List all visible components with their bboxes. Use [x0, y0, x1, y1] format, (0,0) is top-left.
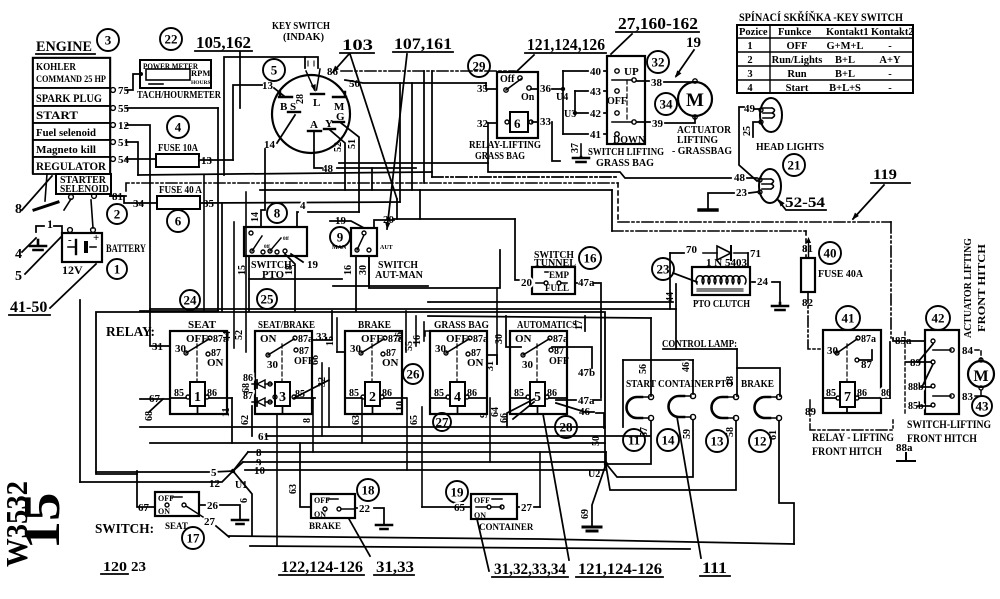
callout 9 [330, 227, 350, 247]
relay K5 AUTOMATICS coil bottom stub [537, 406, 539, 414]
wire dash-dot bus y182 [126, 183, 618, 191]
svg-text:12: 12 [754, 434, 767, 449]
svg-text:2: 2 [369, 390, 376, 405]
relay K2 BRAKE coil box 2 [365, 382, 380, 406]
svg-text:4: 4 [300, 200, 306, 212]
wire S2 dashdot [808, 292, 834, 349]
wire 57 [608, 421, 651, 464]
svg-text:121,124,126: 121,124,126 [527, 35, 605, 54]
svg-text:3: 3 [747, 69, 752, 80]
relay K3 SEAT/BRAKE dashed link [281, 344, 283, 382]
svg-text:86: 86 [243, 373, 253, 384]
svg-text:25: 25 [742, 126, 753, 136]
svg-text:U2: U2 [588, 469, 600, 480]
svg-text:42: 42 [590, 108, 602, 120]
svg-text:-: - [888, 83, 892, 94]
wire U1 fan 8 [233, 452, 248, 471]
wire bus y302 [428, 301, 673, 303]
svg-text:G+M+L: G+M+L [826, 41, 863, 52]
wire 66 vert [321, 363, 323, 436]
relay K4 GRASS BAG coil left wire [430, 397, 446, 399]
wire ladder v400 [399, 83, 401, 202]
wire 18 lamp [736, 349, 738, 396]
wire 20 bus [394, 218, 515, 220]
wire 50 bus [345, 80, 486, 83]
svg-text:Run/Lights: Run/Lights [772, 55, 823, 66]
svg-text:Funkce: Funkce [778, 27, 812, 38]
relay section outline [96, 312, 605, 474]
svg-text:SEAT/BRAKE: SEAT/BRAKE [258, 319, 315, 331]
svg-text:81: 81 [112, 191, 123, 203]
callout 23 [652, 258, 674, 280]
wire K7 coil left [823, 397, 836, 399]
terminal Y [324, 128, 335, 130]
wire 16 down [355, 256, 357, 311]
svg-text:7: 7 [844, 390, 851, 405]
wire 10 vert gb [406, 398, 408, 470]
wire 12 left [80, 473, 231, 482]
svg-text:FUSE 40A: FUSE 40A [818, 268, 863, 280]
wire bus y470 [245, 469, 605, 471]
svg-text:28: 28 [295, 94, 306, 104]
svg-text:47a: 47a [578, 277, 595, 289]
starter selenoid terminals [69, 195, 74, 200]
svg-text:31,33: 31,33 [376, 559, 414, 576]
wire ladder v432 [431, 71, 433, 177]
wire 47b [552, 347, 592, 368]
wire 59 [608, 420, 693, 477]
wire 86 up [889, 342, 891, 398]
callout 27 [433, 413, 451, 431]
wire 44 [675, 284, 677, 309]
fuse F2 40A [157, 196, 200, 209]
svg-text:ON: ON [260, 333, 277, 345]
underline 31,32,33,34 [492, 576, 568, 578]
relay K5 AUTOMATICS coil box 5 [530, 382, 545, 406]
svg-text:-: - [888, 41, 892, 52]
relay K5 AUTOMATICS box [510, 331, 567, 414]
ground 22 [376, 525, 392, 529]
svg-text:39: 39 [652, 118, 664, 130]
wire sb 85 diag [294, 380, 329, 398]
svg-text:34: 34 [133, 198, 145, 210]
wire 39 [637, 121, 650, 123]
actuator motor M front hitch [968, 361, 994, 387]
svg-text:START: START [626, 379, 656, 390]
wire 38 to motor [664, 81, 693, 83]
svg-text:16: 16 [343, 265, 354, 275]
callout 32 [647, 51, 669, 73]
svg-text:Kontakt2: Kontakt2 [871, 27, 914, 38]
relay lifting grass bag box [497, 72, 538, 138]
wire 31 vert gb [496, 288, 498, 364]
wire S to 14 [277, 115, 295, 143]
svg-text:Run: Run [787, 69, 806, 80]
wire U3 vertical [574, 91, 576, 113]
svg-text:40: 40 [824, 246, 837, 261]
wire 30 auto [506, 316, 521, 347]
svg-text:19: 19 [686, 35, 701, 51]
wire 62 long [276, 414, 278, 545]
svg-text:30: 30 [267, 359, 279, 371]
svg-text:OFF: OFF [787, 41, 808, 52]
wire 89 switch [906, 361, 931, 363]
wire battery down [79, 300, 81, 482]
svg-text:BRAKE: BRAKE [358, 319, 391, 331]
svg-text:8: 8 [274, 206, 281, 221]
relay K4 GRASS BAG box [430, 331, 487, 414]
wire pto 4 hook [308, 211, 359, 213]
wire 47a [575, 282, 577, 284]
svg-text:COMMAND 25 HP: COMMAND 25 HP [36, 74, 106, 84]
underline 105,162 [195, 50, 252, 52]
key switch circle [272, 75, 350, 153]
svg-text:49: 49 [744, 103, 756, 115]
relay K1 SEAT dashed link [196, 344, 198, 382]
svg-text:87a: 87a [473, 334, 488, 345]
container switch box [471, 494, 517, 519]
wire 65 switch [422, 506, 471, 508]
wire 35 from fuse40 [200, 202, 400, 203]
wire 64 diag [507, 399, 534, 427]
svg-text:AUT-MAN: AUT-MAN [375, 270, 423, 281]
relay K2 BRAKE coil bottom stub [372, 406, 374, 414]
svg-text:16: 16 [584, 251, 598, 266]
svg-text:36: 36 [540, 83, 552, 95]
wire 103 pointer [333, 54, 349, 72]
relay K4 GRASS BAG coil box 4 [450, 382, 465, 406]
svg-text:GRASS BAG: GRASS BAG [475, 151, 525, 162]
wire 88b diag [922, 364, 933, 387]
wire 85a [893, 338, 925, 341]
table grid [737, 25, 913, 93]
wire bus y279 [249, 278, 342, 280]
svg-text:OFF: OFF [549, 356, 569, 367]
svg-text:A+Y: A+Y [879, 55, 901, 66]
svg-text:ENGINE: ENGINE [36, 39, 92, 55]
svg-text:B+L: B+L [835, 55, 855, 66]
svg-text:Off: Off [500, 74, 515, 85]
relay K7 dashed [846, 344, 848, 382]
control lamp underline wire [663, 348, 737, 350]
svg-text:18: 18 [362, 483, 376, 498]
callout 19 [446, 481, 468, 503]
wire 42 [575, 112, 588, 114]
svg-text:62: 62 [240, 415, 251, 425]
wire 107,161 pointer [387, 54, 407, 229]
svg-text:5: 5 [271, 63, 278, 78]
svg-text:87a: 87a [298, 334, 313, 345]
svg-text:START: START [36, 110, 78, 122]
wire 86 dash-dot [341, 70, 515, 72]
svg-text:Y: Y [325, 118, 333, 130]
switch lifting dashed [626, 80, 628, 121]
wire 46 diag [556, 403, 594, 412]
svg-text:70: 70 [686, 244, 698, 256]
callout 21 [783, 154, 805, 176]
svg-text:40: 40 [590, 66, 602, 78]
svg-text:OFF: OFF [361, 333, 383, 345]
wire 55 vertical [217, 108, 219, 311]
relay K2 BRAKE dashed link [371, 344, 373, 382]
wire tach bus [224, 57, 305, 175]
wire 38 [637, 80, 649, 82]
svg-text:4: 4 [175, 120, 182, 135]
wire U1 fan 5 [213, 471, 233, 472]
svg-text:23: 23 [657, 262, 671, 277]
switch PTO box [244, 227, 307, 256]
svg-text:Start: Start [786, 83, 809, 94]
svg-text:52: 52 [234, 330, 245, 340]
wire y190 drop 420 [419, 190, 421, 219]
svg-text:4: 4 [747, 83, 753, 94]
svg-text:U4: U4 [556, 92, 568, 103]
svg-text:FRONT HITCH: FRONT HITCH [907, 433, 977, 445]
wire dashdot y177 [432, 176, 616, 178]
svg-text:HOURS: HOURS [191, 80, 211, 86]
svg-text:4: 4 [454, 390, 461, 405]
wire 63 switch [300, 443, 311, 507]
svg-text:2: 2 [114, 207, 121, 222]
svg-text:13: 13 [262, 80, 274, 92]
callout 12 [749, 430, 771, 452]
relay K2 BRAKE contact [361, 339, 384, 353]
relay K2 BRAKE coil right wire [384, 397, 402, 399]
relay K3 SEAT/BRAKE coil bottom stub [282, 406, 284, 414]
svg-text:17: 17 [187, 531, 201, 546]
wire bus y316 [428, 316, 651, 318]
svg-text:27,160-162: 27,160-162 [618, 14, 698, 33]
terminal L [311, 93, 324, 95]
svg-text:87a: 87a [553, 334, 568, 345]
svg-text:69: 69 [580, 509, 591, 519]
svg-text:5: 5 [15, 269, 22, 284]
svg-text:31: 31 [152, 341, 163, 353]
svg-text:111: 111 [702, 560, 727, 577]
callout 26 [403, 364, 423, 384]
terminal 75 [111, 88, 116, 93]
svg-text:FUSE 40 A: FUSE 40 A [159, 185, 202, 196]
wire 65 vert [421, 407, 423, 507]
wire bus y436 [266, 435, 650, 437]
callout 1 [107, 259, 127, 279]
wire 36 to U4 [531, 88, 538, 90]
svg-text:44: 44 [665, 292, 676, 302]
engine row REGULATOR [33, 157, 110, 174]
svg-text:KOHLER: KOHLER [36, 62, 77, 73]
svg-text:OFF: OFF [607, 96, 627, 107]
ground 37 [573, 157, 589, 162]
svg-text:SEAT: SEAT [165, 521, 188, 531]
wire 40 [563, 70, 588, 72]
terminal M [333, 92, 346, 97]
svg-text:66: 66 [499, 413, 510, 423]
relay K3 SEAT/BRAKE contact [268, 339, 294, 355]
wire S3 dash [975, 388, 981, 396]
callout 14 [657, 429, 679, 451]
wire 41-50 pointer [50, 264, 96, 308]
pto clutch coil [696, 276, 746, 284]
wire 4 diagonal [22, 238, 36, 252]
underline 31,33 [374, 574, 414, 576]
ground 23 [699, 208, 717, 211]
switch lifting grass bag box [607, 56, 645, 144]
svg-text:51: 51 [347, 139, 358, 149]
wire 22 [355, 507, 357, 509]
svg-text:12: 12 [118, 120, 130, 132]
switch S42 contact S3 [933, 395, 951, 397]
power meter mark [149, 83, 163, 85]
svg-text:61: 61 [258, 431, 269, 443]
wire bus y309 [150, 308, 676, 310]
svg-text:OFF: OFF [446, 333, 468, 345]
svg-text:65: 65 [409, 415, 420, 425]
svg-text:22: 22 [165, 32, 178, 47]
callout 22 [160, 28, 182, 50]
svg-text:10: 10 [395, 401, 406, 411]
wire 66 diag [513, 402, 534, 419]
wire bus y175 [138, 172, 432, 175]
wire 121 pointer [516, 55, 534, 72]
svg-text:33: 33 [540, 116, 552, 128]
svg-text:MAN: MAN [332, 245, 347, 251]
wire 41 [563, 133, 588, 135]
callout 16 [579, 247, 601, 269]
wire 54 to fuse10 [126, 158, 156, 160]
underline 52-54 [778, 200, 826, 210]
wire 31 seat [150, 311, 170, 346]
wire 27 right [534, 506, 540, 508]
svg-text:ON: ON [515, 333, 532, 345]
svg-text:0ff: 0ff [283, 237, 289, 242]
svg-text:0ff: 0ff [264, 245, 270, 250]
svg-text:63: 63 [288, 484, 299, 494]
svg-text:+: + [93, 232, 99, 244]
svg-text:19: 19 [451, 485, 465, 500]
wire bus y163 [339, 162, 488, 164]
svg-text:54: 54 [118, 154, 130, 166]
svg-text:SWITCH LIFTING: SWITCH LIFTING [588, 147, 664, 158]
seat switch box [155, 492, 199, 516]
svg-text:ACTUATOR LIFTING: ACTUATOR LIFTING [962, 238, 974, 338]
relay K1 SEAT contact [186, 339, 209, 353]
svg-text:FRONT HITCH: FRONT HITCH [976, 244, 988, 332]
svg-text:BRAKE: BRAKE [309, 521, 341, 531]
underline ENGINE [36, 53, 95, 55]
svg-text:107,161: 107,161 [394, 36, 452, 53]
callout 6 [167, 210, 189, 232]
wire 51 vert [341, 123, 359, 212]
relay K4 GRASS BAG coil right wire [469, 397, 487, 399]
svg-text:27: 27 [521, 502, 533, 514]
wire 36b [552, 88, 563, 90]
callout 25 [257, 289, 277, 309]
wire 62 vert [251, 406, 253, 436]
svg-text:67: 67 [138, 502, 150, 514]
callout 5 [263, 59, 285, 81]
engine row START [33, 106, 110, 123]
svg-text:SELENOID: SELENOID [60, 184, 109, 195]
wire 23 lights [708, 193, 734, 209]
wire 111 diagonal [677, 417, 701, 558]
wire 9 vert gb [489, 398, 491, 462]
callout 43 [972, 396, 992, 416]
svg-text:G: G [336, 111, 345, 123]
svg-text:1: 1 [114, 262, 121, 277]
relay K7 coil bottom stub [846, 407, 848, 413]
svg-text:24: 24 [184, 293, 198, 308]
svg-text:83: 83 [962, 391, 974, 403]
wire bottom bus 1 [229, 536, 794, 544]
svg-text:32: 32 [652, 55, 665, 70]
svg-text:12: 12 [209, 478, 221, 490]
svg-text:ON: ON [207, 357, 224, 369]
svg-text:56: 56 [394, 332, 405, 342]
engine block outline [33, 58, 110, 173]
wire diode down [747, 253, 749, 267]
svg-text:30: 30 [494, 334, 505, 344]
svg-text:37: 37 [570, 143, 581, 153]
wire 25 [753, 122, 761, 137]
wire 111 diagonal from relay [543, 414, 569, 560]
svg-text:HEAD LIGHTS: HEAD LIGHTS [756, 142, 824, 153]
relay K1 SEAT coil bottom stub [197, 406, 199, 414]
svg-text:66: 66 [310, 355, 321, 365]
svg-text:30: 30 [175, 343, 187, 355]
svg-text:41: 41 [842, 311, 855, 326]
wire U1 down 6 [233, 471, 252, 536]
callout 17 [182, 527, 204, 549]
wire 61 lamp [779, 421, 794, 544]
svg-text:EMP: EMP [549, 270, 569, 280]
svg-text:GRASS BAG: GRASS BAG [434, 319, 489, 331]
wire 75 to tach [126, 74, 141, 90]
ground 88a [897, 453, 915, 461]
wire 49 bracket [739, 107, 757, 181]
relay K4 GRASS BAG dashed link [456, 344, 458, 382]
svg-text:30: 30 [435, 343, 447, 355]
svg-text:11: 11 [628, 433, 640, 448]
relay K2 BRAKE coil left wire [345, 397, 361, 399]
relay K5 AUTOMATICS coil left wire [510, 397, 526, 399]
wire 70 [670, 252, 684, 254]
wire 14 to pto [261, 190, 265, 227]
svg-text:42: 42 [932, 311, 945, 326]
control lamp riser [675, 309, 677, 349]
wire 50 into relay [486, 83, 497, 89]
svg-text:ON: ON [474, 511, 486, 520]
svg-text:14: 14 [250, 212, 261, 222]
wire 85b [918, 405, 931, 407]
actuator motor M grass bag [678, 82, 712, 116]
svg-text:RELAY:: RELAY: [106, 325, 155, 340]
svg-text:13: 13 [201, 155, 213, 167]
wire 67 switch [137, 471, 155, 507]
wire 88b [920, 386, 931, 388]
wire 24 [752, 281, 755, 283]
wire long diagonal [350, 54, 397, 199]
wire 55 vert gb [415, 316, 417, 346]
engine row KOHLER COMMAND 25 HP [33, 58, 110, 88]
svg-text:6: 6 [514, 116, 521, 131]
svg-text:21: 21 [788, 158, 801, 173]
svg-text:30: 30 [350, 343, 362, 355]
key switch top bracket [305, 57, 318, 68]
grass bag bracket [425, 331, 430, 336]
wire dashdot y231 [612, 230, 806, 232]
svg-text:Pozice: Pozice [739, 27, 768, 38]
wire U4 vertical [562, 71, 564, 134]
